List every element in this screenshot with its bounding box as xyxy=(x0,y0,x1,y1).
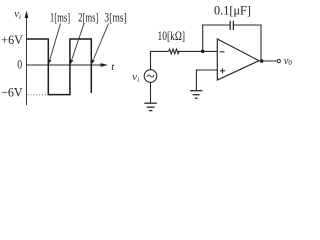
horizontal axis xyxy=(27,64,104,66)
vertical axis xyxy=(26,16,28,105)
vertical axis arrowhead xyxy=(25,11,29,19)
svg-text:1[ms]: 1[ms] xyxy=(50,10,70,24)
resistor R 10[kOhm] xyxy=(169,49,179,54)
feedback wire right segment xyxy=(233,25,261,60)
ground below source xyxy=(144,103,157,110)
svg-text:2[ms]: 2[ms] xyxy=(78,10,98,24)
-6V dashed level line xyxy=(28,94,49,96)
output wire xyxy=(259,60,278,62)
svg-text:+6V: +6V xyxy=(1,33,23,47)
3ms pointer line xyxy=(92,24,109,65)
ground at + input xyxy=(190,91,202,99)
wire source to ground xyxy=(150,82,152,103)
AC source xyxy=(144,70,157,83)
source v_i label xyxy=(132,72,139,84)
output node dot xyxy=(260,59,264,63)
svg-text:i: i xyxy=(137,76,139,84)
capacitor C 0.1[uF] xyxy=(230,21,233,30)
svg-text:0.1[μF]: 0.1[μF] xyxy=(214,3,251,17)
svg-text:10[kΩ]: 10[kΩ] xyxy=(158,29,186,43)
+ input wire xyxy=(196,70,217,90)
1ms pointer line xyxy=(48,24,60,65)
svg-text:i: i xyxy=(19,13,21,21)
op-amp minus sign xyxy=(220,51,225,53)
square wave v_i(t) xyxy=(27,39,92,95)
op-amp plus sign xyxy=(220,68,225,73)
horizontal axis arrowhead xyxy=(101,63,109,67)
wire source to resistor xyxy=(151,51,169,69)
2ms pointer line xyxy=(70,24,84,65)
feedback wire left segment xyxy=(203,25,230,51)
svg-text:0: 0 xyxy=(17,57,22,71)
wire resistor to op-amp xyxy=(178,50,217,52)
output terminal circle xyxy=(277,59,280,62)
v_i axis label xyxy=(14,9,21,21)
op-amp U1 triangle xyxy=(217,39,259,80)
v_o label xyxy=(284,56,293,67)
svg-text:0: 0 xyxy=(288,59,292,67)
node junction dot (inverting input) xyxy=(201,50,205,54)
svg-text:−6V: −6V xyxy=(1,86,23,100)
svg-text:3[ms]: 3[ms] xyxy=(104,10,127,24)
